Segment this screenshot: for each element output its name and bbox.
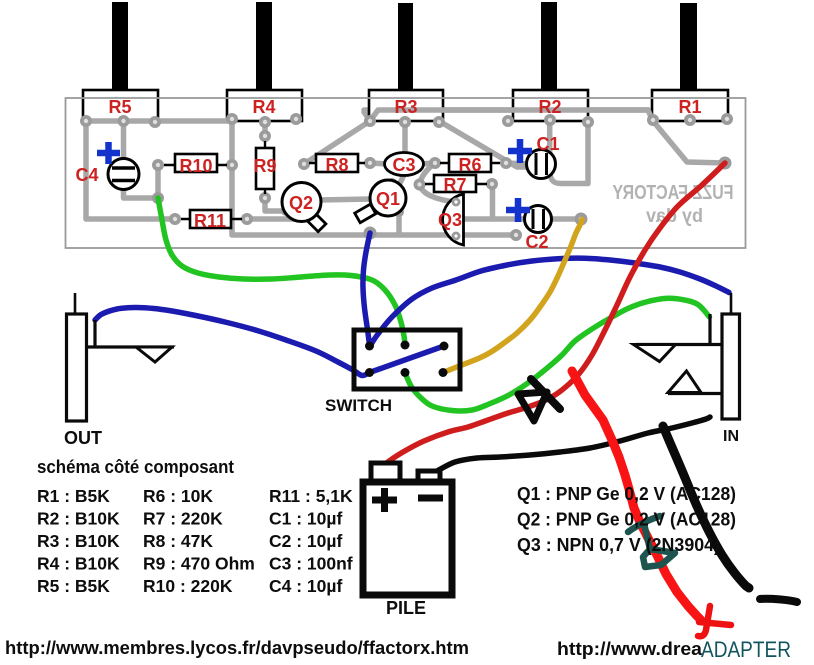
svg-text:C3 : 100nf: C3 : 100nf bbox=[269, 554, 353, 574]
pad red wire node bbox=[719, 157, 732, 170]
pad R2-2 bbox=[544, 114, 556, 126]
svg-text:Q1 : PNP Ge 0,2 V (AC128): Q1 : PNP Ge 0,2 V (AC128) bbox=[517, 484, 736, 504]
pad R3-1 bbox=[364, 115, 376, 127]
svg-text:R1: R1 bbox=[678, 97, 701, 117]
svg-text:IN: IN bbox=[723, 428, 739, 445]
capacitor C1 bbox=[527, 150, 556, 179]
svg-text:Q3 : NPN 0,7 V (2N3904): Q3 : NPN 0,7 V (2N3904) bbox=[517, 535, 720, 555]
pad R8 left bbox=[298, 158, 310, 170]
svg-text:R2 : B10K: R2 : B10K bbox=[37, 509, 120, 529]
wire trace: top bus y=110 bbox=[370, 110, 653, 121]
wire trace: R4 pad2 to R9 top bbox=[262, 121, 268, 136]
wire trace: Q3 to C2 to gold pad bbox=[458, 216, 581, 222]
wire trace: C3 right to R6 left bbox=[420, 163, 435, 164]
OUT jack arm bbox=[87, 345, 175, 348]
silkscreen text FUZZ FACTORY (mirrored) bbox=[612, 182, 734, 227]
svg-text:R3 : B10K: R3 : B10K bbox=[37, 531, 120, 551]
svg-text:http://www.membres.lycos.fr/da: http://www.membres.lycos.fr/davpseudo/ff… bbox=[5, 638, 469, 658]
handdrawn marks bbox=[518, 371, 797, 636]
wire gold from switch bottom-right to PCB pad bbox=[443, 220, 582, 373]
svg-text:Q2 : PNP Ge 0,2 V (AC128): Q2 : PNP Ge 0,2 V (AC128) bbox=[517, 510, 736, 530]
svg-text:SWITCH: SWITCH bbox=[325, 396, 392, 415]
pad gold wire node bbox=[575, 213, 588, 226]
hand-drawn teal arrow bbox=[628, 516, 675, 567]
capacitor C3 (ellipse) bbox=[385, 153, 424, 176]
pad R1-2 bbox=[684, 114, 696, 126]
wire trace: green pad up to R10 left bbox=[155, 165, 161, 198]
wire trace: diagonal R3 pad3 to C1 bbox=[439, 121, 528, 167]
pad Q1 top bbox=[387, 178, 397, 188]
switch lug bottom-left bbox=[365, 368, 374, 377]
pad R6 left bbox=[429, 157, 441, 169]
pad R9 top bbox=[259, 130, 271, 142]
pad Q1 left bbox=[368, 194, 378, 204]
svg-text:http://www.drea: http://www.drea bbox=[557, 639, 703, 659]
hand-drawn red plus bbox=[698, 606, 731, 636]
wire trace: R6 right to C1 bbox=[506, 163, 530, 164]
svg-text:C1 : 10µf: C1 : 10µf bbox=[269, 509, 342, 529]
wire trace: diagonal R3 pad1 to R8 left bbox=[304, 121, 370, 164]
wire green from PCB pad to switch top-middle bbox=[158, 198, 405, 345]
potentiometer R2 body bbox=[513, 90, 588, 121]
svg-text:Q1: Q1 bbox=[376, 189, 400, 209]
resistor R7 bbox=[425, 175, 487, 195]
pad R5-1 bbox=[80, 115, 92, 127]
svg-text:FUZZ FACTORY: FUZZ FACTORY bbox=[612, 182, 734, 204]
pad R1-1 bbox=[647, 114, 659, 126]
pad R3-3 bbox=[433, 116, 445, 128]
pad blue wire node bbox=[364, 227, 377, 240]
pad bottom bus end bbox=[510, 229, 522, 241]
battery bbox=[363, 463, 452, 618]
battery terminal minus bbox=[418, 471, 440, 482]
wire trace: R5 pad2 down to C4 bbox=[121, 121, 127, 162]
svg-text:C4 : 10µf: C4 : 10µf bbox=[269, 576, 342, 596]
IN jack contact triangle lower bbox=[668, 371, 701, 393]
wire trace: left vertical from R5 pad1 bbox=[86, 121, 175, 219]
C4 polarity plus (blue) bbox=[97, 142, 120, 164]
transistor Q2 bbox=[282, 183, 326, 232]
potentiometer R5 body bbox=[83, 90, 158, 121]
wire trace: C3 bottom to Q1 bbox=[400, 173, 405, 183]
wire blue inside switch (diagonal) bbox=[370, 346, 445, 373]
pad R1-3 bbox=[721, 113, 733, 125]
switch lug bottom-middle bbox=[401, 368, 410, 377]
hand-drawn black arrow near red wire bbox=[531, 379, 560, 409]
resistor R6 bbox=[440, 154, 500, 175]
pad R5-3 bbox=[149, 116, 161, 128]
pad Q1 bottom bbox=[394, 207, 404, 217]
pad R8 right bbox=[364, 157, 376, 169]
svg-text:R9: R9 bbox=[253, 156, 276, 176]
IN jack arm upper bbox=[636, 343, 722, 346]
wire trace: top bus y=110 (behind pot bodies) bbox=[364, 110, 653, 121]
resistor R10 bbox=[164, 154, 227, 176]
wire trace: R4 pad1 vertical down and bottom bus bbox=[232, 121, 516, 235]
OUT jack lug stub bbox=[93, 320, 96, 347]
svg-text:OUT: OUT bbox=[64, 428, 102, 448]
svg-text:R10 : 220K: R10 : 220K bbox=[143, 576, 233, 596]
PCB board outline bbox=[66, 98, 746, 248]
pad R7 left bbox=[414, 179, 426, 191]
svg-text:R11 : 5,1K: R11 : 5,1K bbox=[269, 486, 353, 506]
potentiometer R2 shaft bbox=[541, 2, 557, 91]
potentiometer R5 shaft bbox=[112, 2, 128, 91]
battery terminal plus bbox=[371, 463, 400, 482]
text blocks bbox=[5, 456, 791, 662]
svg-text:C1: C1 bbox=[536, 134, 559, 154]
svg-text:R5 : B5K: R5 : B5K bbox=[37, 576, 110, 596]
switch bbox=[325, 330, 460, 415]
svg-text:R11: R11 bbox=[194, 211, 226, 231]
IN jack contact triangle upper bbox=[634, 345, 676, 362]
pad R2-1 bbox=[502, 115, 514, 127]
capacitor C4 bbox=[108, 159, 139, 190]
transistor Q1 bbox=[355, 180, 406, 223]
wire trace: R7 left pad curve to Q3 top pad bbox=[420, 185, 457, 203]
copper traces bbox=[86, 110, 725, 235]
svg-text:C4: C4 bbox=[75, 165, 98, 185]
wire trace: C4 bottom to green pad bbox=[124, 185, 159, 198]
pad Q3 bottom bbox=[451, 231, 461, 241]
potentiometer R3 body bbox=[369, 90, 443, 121]
wire trace: C3 right pad curve down to R7 left pad bbox=[420, 163, 435, 185]
svg-text:C2 : 10µf: C2 : 10µf bbox=[269, 531, 342, 551]
potentiometer R3 shaft bbox=[398, 3, 413, 91]
svg-text:R2: R2 bbox=[538, 97, 561, 117]
switch box bbox=[354, 330, 460, 389]
pad R2-3 bbox=[582, 116, 594, 128]
switch lug top-left bbox=[365, 342, 374, 351]
hand-drawn red marker line bbox=[572, 371, 701, 620]
wire trace: R5 pads row bbox=[86, 118, 232, 124]
wire trace: R11 right to Q2 bbox=[247, 216, 300, 222]
svg-text:R9 : 470 Ohm: R9 : 470 Ohm bbox=[143, 554, 255, 574]
IN jack arm lower bbox=[668, 392, 722, 395]
pad R9 bottom bbox=[259, 192, 271, 204]
wire blue from OUT jack to switch bottom-left bbox=[95, 307, 370, 375]
pad R4-2 bbox=[259, 116, 271, 128]
wire trace: R2 pad2 down, U link to R2 pad3 bbox=[550, 121, 588, 184]
wire trace: R8 right to C3 left bbox=[370, 163, 388, 164]
pad R10 right bbox=[226, 159, 238, 171]
OUT jack body bbox=[67, 314, 87, 421]
svg-text:R8: R8 bbox=[325, 155, 348, 175]
svg-text:R6: R6 bbox=[458, 155, 481, 175]
svg-text:R6 : 10K: R6 : 10K bbox=[143, 486, 213, 506]
wire trace: R3 pad2 down to C3 bbox=[402, 122, 408, 155]
potentiometer R4 body bbox=[227, 90, 302, 121]
pad R7 right bbox=[486, 178, 498, 190]
switch lug bottom-right bbox=[439, 368, 448, 377]
pads bbox=[80, 113, 733, 241]
C2 polarity plus (blue) bbox=[506, 198, 530, 222]
resistor R8 bbox=[309, 154, 365, 175]
pad Q3 top bbox=[451, 197, 461, 207]
battery minus mark bbox=[418, 495, 443, 502]
wire green from switch bottom-middle to IN jack bbox=[405, 298, 710, 411]
svg-text:PILE: PILE bbox=[386, 598, 426, 618]
svg-text:R7 : 220K: R7 : 220K bbox=[143, 509, 223, 529]
svg-text:Q3: Q3 bbox=[438, 210, 462, 230]
wire trace: R9 bottom to Q2 left pin bbox=[265, 198, 286, 211]
IN jack body bbox=[722, 314, 740, 419]
svg-text:R5: R5 bbox=[108, 97, 131, 117]
hand-drawn black marker line bbox=[663, 426, 749, 588]
wire trace: diagonal R1 pad1 to red pad bbox=[653, 121, 725, 163]
wire blue from PCB pad down to switch top-left bbox=[363, 233, 370, 346]
svg-text:schéma côté composant: schéma côté composant bbox=[37, 456, 234, 477]
svg-text:R8 : 47K: R8 : 47K bbox=[143, 531, 213, 551]
hand-drawn black dash bbox=[760, 599, 797, 602]
pad Q2 left bbox=[281, 206, 291, 216]
svg-text:R7: R7 bbox=[443, 175, 466, 195]
pad R4-1 bbox=[226, 113, 238, 125]
wire red from PCB pad to battery plus bbox=[384, 163, 725, 465]
wire trace: Q2 to Q1 link bbox=[318, 199, 371, 200]
pad R6 right bbox=[500, 157, 512, 169]
OUT jack pin bbox=[74, 293, 77, 314]
IN jack pin bbox=[730, 293, 733, 314]
svg-text:ADAPTER: ADAPTER bbox=[701, 637, 791, 662]
transistor Q3 (half disc) bbox=[438, 194, 464, 245]
svg-text:C3: C3 bbox=[392, 155, 415, 175]
pad R3-2 bbox=[399, 116, 411, 128]
wire trace: Q1 pin down to bottom bus bbox=[396, 212, 402, 233]
pad Q2 top bbox=[296, 181, 306, 191]
PCB border line (drawn over pot bodies) bbox=[66, 98, 746, 248]
switch lug top-middle bbox=[401, 341, 410, 350]
battery body bbox=[363, 482, 452, 595]
wire black from battery minus to IN jack bbox=[437, 417, 710, 471]
capacitor C2 bbox=[525, 206, 552, 233]
pad R10 left bbox=[152, 159, 164, 171]
svg-text:C2: C2 bbox=[525, 232, 548, 252]
switch lug top-right bbox=[440, 342, 449, 351]
resistor R11 bbox=[181, 210, 242, 231]
wire trace: R7 right down to bus bbox=[490, 184, 496, 217]
svg-text:R10: R10 bbox=[179, 156, 212, 176]
svg-text:R4 : B10K: R4 : B10K bbox=[37, 554, 120, 574]
pad Q2 right bbox=[309, 206, 319, 216]
C1 polarity plus (blue) bbox=[508, 139, 532, 163]
components bbox=[75, 134, 559, 252]
wire blue from switch top-left up to IN jack pin bbox=[370, 258, 729, 346]
potentiometer R1 body bbox=[652, 90, 728, 121]
pad R11 left bbox=[169, 213, 181, 225]
svg-text:R3: R3 bbox=[394, 97, 417, 117]
potentiometer R4 shaft bbox=[256, 2, 272, 91]
IN jack lug stub bbox=[708, 314, 711, 345]
pad R5-2 bbox=[118, 115, 130, 127]
svg-text:R1 : B5K: R1 : B5K bbox=[37, 486, 110, 506]
svg-text:Q2: Q2 bbox=[289, 193, 313, 213]
jacks bbox=[64, 293, 740, 448]
pad R11 right bbox=[241, 213, 253, 225]
resistor R9 (vertical) bbox=[253, 141, 276, 194]
pad R4-3 bbox=[290, 113, 302, 125]
potentiometer R1 shaft bbox=[680, 3, 697, 91]
pad green wire node bbox=[152, 192, 164, 204]
battery plus mark bbox=[372, 488, 397, 512]
svg-text:R4: R4 bbox=[252, 97, 275, 117]
OUT jack contact triangle bbox=[136, 347, 172, 362]
